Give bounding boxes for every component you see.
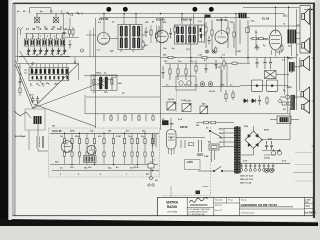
svg-text:GŁ1: GŁ1: [283, 16, 288, 18]
wire tuner left rail: [17, 28, 19, 62]
agc components: [227, 20, 249, 48]
junction dot d: [160, 13, 162, 15]
svg-text:5Ω: 5Ω: [288, 46, 291, 48]
left small marks: [24, 70, 27, 73]
svg-text:EM 80: EM 80: [180, 125, 188, 129]
IF filter slug: [199, 25, 205, 42]
svg-text:UL. MICKIEWICZA 1: UL. MICKIEWICZA 1: [189, 213, 206, 216]
ratio detector coil b: [105, 76, 108, 90]
resistor R IF3: [142, 40, 144, 50]
svg-text:nrn 58/972: nrn 58/972: [305, 213, 317, 215]
resistor R left1: [19, 88, 21, 93]
dial lamp 4: [254, 163, 257, 171]
pot ganging dashed line: [176, 90, 178, 112]
wire riser center: [160, 18, 162, 130]
manufacturer address lines: [189, 208, 211, 216]
crossover capacitor box: [265, 71, 277, 79]
stamp mark above title: [196, 191, 201, 195]
resistor R8 amp chain: [123, 133, 125, 164]
resistor pair gap: [68, 27, 74, 37]
svg-text:0,5M: 0,5M: [186, 101, 191, 103]
tube V3 EABC80: [215, 18, 228, 44]
left column wire: [19, 64, 21, 97]
dial lamp 2: [245, 163, 248, 171]
dial lamp 1: [240, 163, 243, 171]
wire tap join: [223, 129, 225, 148]
electrolytic cap 2: [277, 149, 281, 155]
coil L1: [24, 34, 28, 47]
frame tick marks: [312, 58, 316, 146]
resistor R12 amp chain: [151, 133, 153, 164]
coil L3: [36, 34, 40, 47]
potentiometer P3 treble: [200, 106, 208, 114]
triode V1a: [61, 141, 73, 153]
B plus choke: [277, 116, 291, 124]
wire second top bus: [100, 17, 250, 19]
tube V4 EL84: [269, 30, 282, 57]
soft toner smudge amp: [48, 128, 160, 177]
approval signature: [190, 197, 208, 205]
socket jack B: [208, 82, 213, 87]
soft toner smudge controls: [160, 56, 250, 112]
transistor T2 oscillator: [53, 14, 59, 23]
wire speaker box exit: [297, 9, 314, 60]
test point jack 1: [205, 50, 208, 53]
svg-text:EABC 80: EABC 80: [217, 19, 228, 22]
resistor R IF2: [155, 25, 157, 43]
hang cap 1: [205, 64, 208, 73]
wire filter bus: [240, 85, 288, 87]
resistor R det3: [215, 46, 217, 54]
svg-text:Gr: Gr: [147, 173, 150, 176]
antenna input symbol: [18, 27, 23, 35]
resistor R7 amp chain: [112, 133, 114, 164]
speaker network: [280, 97, 301, 105]
logo UNITRA RADIO: [166, 201, 179, 214]
wire screen bus: [248, 25, 300, 27]
IF transformer T10.7 D: [187, 25, 198, 44]
antenna coupling box: [25, 109, 45, 130]
potentiometer P2 bass: [182, 104, 191, 112]
diode D2: [251, 99, 257, 103]
control labels: [164, 60, 221, 102]
resistor R1 amp chain: [63, 133, 65, 164]
wire bridge output: [241, 126, 290, 155]
svg-text:127V: 127V: [219, 142, 224, 144]
capacitor C mid1: [162, 66, 165, 79]
capacitor C gap3: [69, 40, 72, 48]
tube V6 ECH81: [156, 18, 168, 44]
svg-text:1M: 1M: [60, 136, 63, 138]
bottom-right light corner: [318, 223, 320, 227]
left frame line inner: [14, 3, 17, 216]
power transformer core: [236, 126, 239, 174]
trimmer capacitor C2: [33, 47, 37, 54]
svg-text:ZR DIORA: ZR DIORA: [167, 211, 177, 214]
junction dot a: [68, 13, 70, 15]
filter capacitors: [265, 141, 273, 150]
resistor R9 amp chain: [131, 133, 133, 164]
wire speaker feed bus: [243, 7, 299, 9]
svg-text:ŻAR 7V 0,3A: ŻAR 7V 0,3A: [240, 182, 252, 185]
IF transformer T10.7 B: [131, 25, 143, 50]
right frame border: [313, 3, 315, 219]
svg-text:6,3V: 6,3V: [282, 161, 287, 163]
dial lamp 8: [272, 163, 275, 171]
bus component marker: [205, 15, 211, 18]
coil L7: [60, 34, 64, 47]
triode V1b: [87, 145, 96, 154]
paper noise: [0, 0, 1, 1]
svg-text:160V: 160V: [219, 137, 224, 139]
wire gram riser: [203, 186, 209, 188]
svg-text:Nazwa: Nazwa: [241, 200, 247, 202]
wire lamp bus: [239, 162, 290, 164]
wire tuner lower rail: [19, 55, 70, 57]
fuse holder: [209, 144, 219, 150]
IF transformer T10.7 C: [175, 25, 186, 44]
svg-text:6,3V: 6,3V: [243, 161, 248, 163]
band switch trimmer row: [29, 75, 69, 81]
wire agc riser: [235, 14, 237, 56]
filter box F1: [251, 80, 262, 91]
coil L6: [54, 34, 58, 47]
wire low horizontal: [85, 113, 291, 115]
drawing title text: [240, 203, 293, 207]
svg-text:Na podst.: Na podst.: [215, 199, 223, 202]
capacitor C top3: [269, 57, 272, 69]
amp value labels: [60, 135, 145, 170]
wire mid bus 1: [161, 57, 297, 59]
switch contact b: [74, 62, 76, 64]
wire contact drop: [75, 57, 79, 80]
svg-text:6,3V: 6,3V: [178, 119, 183, 121]
top paper edge line: [13, 3, 315, 5]
wire tuner bottom rail: [15, 56, 96, 58]
wire EM80 links: [171, 118, 205, 138]
wire control bus: [162, 86, 240, 88]
capacitor C sp1: [258, 96, 261, 106]
dial lamp 5: [258, 163, 261, 171]
coil L2: [30, 34, 34, 47]
wire gap risers: [86, 28, 96, 57]
capacitor C ant: [31, 96, 39, 104]
resistor R mid2: [202, 56, 207, 58]
ratio detector coil a: [98, 76, 105, 90]
switch linkage diagonal 1: [15, 65, 33, 109]
diode D1: [243, 99, 249, 103]
mains lead: [212, 150, 215, 162]
speaker jack 2: [291, 95, 295, 99]
detector side parts: [93, 75, 113, 90]
antenna transformer: [34, 116, 42, 124]
cathode parts EL84: [276, 44, 283, 52]
resistor R10 amp chain: [136, 133, 138, 164]
wire right riser 2: [285, 56, 288, 113]
wire b feed mid: [196, 122, 234, 124]
tuning link diagonal: [34, 77, 118, 109]
hang cap 2: [215, 60, 218, 69]
junction dot c: [103, 13, 105, 15]
mains tap 190V: [219, 133, 234, 135]
resistor chain EL84 grid: [250, 37, 268, 39]
punch hole 3: [192, 7, 197, 12]
capacitor C top1: [256, 58, 259, 68]
wire gap mid: [62, 14, 79, 38]
coupling choke: [239, 13, 247, 18]
svg-text:RADIO: RADIO: [167, 205, 178, 209]
wire to title block: [170, 186, 172, 197]
mains tap 160V: [219, 137, 234, 139]
capacitor C gap1: [63, 29, 66, 36]
title block verticals: [187, 197, 304, 215]
coil L4: [42, 34, 46, 47]
band switch labels: [30, 84, 59, 86]
wire risers ctrl: [222, 63, 227, 86]
wire antenna box down: [28, 130, 30, 150]
svg-text:2×0,01: 2×0,01: [209, 90, 216, 93]
tube V2 ECC85: [98, 14, 110, 45]
speaker box top: [300, 6, 310, 53]
component row above amp: [104, 114, 154, 121]
svg-text:1M: 1M: [230, 22, 233, 24]
title lower row: [241, 212, 254, 215]
jack small: [279, 100, 282, 103]
wire switch rail: [17, 63, 78, 65]
tuner top small labels: [40, 10, 74, 17]
dial lamp 6: [263, 163, 266, 171]
punch hole 1: [106, 7, 111, 12]
resistor R mid3: [232, 62, 237, 64]
filter box F2: [266, 80, 277, 91]
svg-text:Schemat ideowy: Schemat ideowy: [241, 212, 254, 215]
power transformer primary: [234, 127, 237, 174]
potentiometer P1 volume: [167, 102, 176, 110]
ratio detector box: [91, 75, 117, 91]
speaker connector dot: [311, 9, 313, 11]
bottom black bar: [0, 219, 318, 226]
trimmer capacitor C5: [51, 47, 55, 54]
coil L5: [48, 34, 52, 47]
mains plug prongs: [198, 140, 203, 156]
switch linkage diagonal 3: [34, 104, 96, 127]
wire top loop: [30, 8, 52, 14]
wire antenna to amp: [38, 124, 48, 151]
svg-text:220V: 220V: [219, 128, 224, 130]
antenna lead zigzag: [14, 111, 31, 118]
wire EL84 grid: [256, 30, 269, 48]
pilot bulb 1: [265, 169, 269, 173]
soft toner smudge IF: [96, 18, 248, 54]
wire b plus riser: [289, 108, 291, 140]
wire mid bus 2: [165, 62, 250, 64]
resistor R6 amp chain: [103, 133, 105, 164]
bottom frame line: [13, 214, 314, 217]
wire riser IF left: [95, 18, 97, 128]
diode EL84 area: [255, 44, 260, 51]
svg-text:ODBIORNIK FM DM 70/102: ODBIORNIK FM DM 70/102: [241, 203, 278, 207]
power transformer secondary: [238, 127, 241, 174]
wire top supply bus: [36, 13, 284, 15]
scattered value labels: [17, 10, 299, 182]
svg-text:1M: 1M: [164, 61, 167, 63]
pickup component: [148, 164, 154, 180]
switch bank leads: [32, 64, 67, 68]
switch linkage diagonal 2: [33, 64, 79, 109]
wire EL84 anode: [276, 7, 289, 30]
wire IF link: [109, 14, 145, 39]
loudspeaker LS2: [302, 38, 310, 53]
mains tap 110V: [219, 146, 234, 148]
resistor R2 amp chain: [71, 133, 73, 164]
svg-text:Nr rys.: Nr rys.: [228, 200, 234, 202]
tube V5 EM80: [167, 130, 177, 156]
DW marker box: [162, 120, 174, 125]
wire riser detector: [190, 20, 192, 87]
capacitor C gap2: [63, 40, 66, 48]
resistor R3 amp chain: [78, 133, 80, 164]
svg-text:19SZ: 19SZ: [96, 73, 102, 75]
dial lamp 7: [267, 163, 270, 171]
wire B choke: [270, 119, 299, 121]
number cells: [305, 199, 317, 214]
ferrite rod coil: [37, 136, 44, 148]
title block horizontals: [187, 203, 313, 209]
title cell divider: [226, 197, 228, 203]
speaker transformer 2: [291, 95, 296, 110]
resistor R4 amp chain: [86, 133, 88, 164]
detector diode parts: [205, 20, 213, 50]
oscillator coil amp: [152, 134, 156, 147]
dial lamp 3: [249, 163, 252, 171]
mains entry box: [185, 160, 201, 170]
svg-text:190V: 190V: [219, 133, 224, 135]
wire choke link: [276, 67, 301, 75]
title cell small labels: [215, 199, 247, 213]
svg-text:2,2M: 2,2M: [116, 136, 121, 138]
svg-text:ŻAR 6,3V 0,3A: ŻAR 6,3V 0,3A: [240, 175, 253, 178]
soft toner smudge tuner: [15, 10, 70, 56]
title block frame: [158, 197, 314, 215]
switch contact a: [32, 63, 34, 65]
left frame line outer: [12, 3, 15, 216]
svg-text:0,8A: 0,8A: [204, 155, 209, 158]
socket jack A: [200, 82, 205, 87]
punch hole 4: [209, 7, 214, 12]
switch linkage diagonal 4: [16, 61, 34, 104]
wire coil bus: [25, 33, 67, 35]
loudspeaker LS4: [301, 87, 310, 102]
trimmer capacitor C3: [39, 47, 43, 54]
resistor R sp1: [266, 96, 268, 105]
mains tap selector arm: [209, 130, 222, 137]
punch hole 2: [123, 7, 128, 12]
capacitor C left1: [19, 78, 22, 86]
capacitor C IF1: [145, 27, 148, 37]
svg-text:0,5M: 0,5M: [236, 51, 241, 53]
loudspeaker LS3: [301, 56, 310, 71]
speaker choke: [289, 62, 295, 72]
svg-text:Zatw. KT: Zatw. KT: [215, 209, 223, 212]
resistor R5 amp chain: [93, 133, 95, 164]
wire detector lower bus: [86, 96, 160, 98]
loudspeaker LS5: [302, 101, 310, 114]
EM80 grid parts: [181, 140, 194, 148]
wire rectifier links: [262, 151, 281, 156]
IF transformer T10.7 A: [118, 25, 130, 50]
svg-text:2×50μ: 2×50μ: [264, 157, 271, 160]
power switch: [198, 166, 235, 171]
svg-text:EL 84: EL 84: [262, 17, 270, 21]
svg-text:ECC 85: ECC 85: [53, 129, 63, 133]
svg-text:1M: 1M: [108, 131, 111, 133]
wire amp bottom bus: [50, 164, 158, 166]
wire riser agc: [247, 20, 249, 63]
hang res 1: [223, 58, 225, 70]
svg-text:DW: DW: [170, 123, 174, 125]
resistor R feed1: [204, 121, 209, 123]
svg-text:GŁ2: GŁ2: [288, 58, 293, 60]
bridge rectifier: [245, 131, 262, 148]
wire detector bus: [84, 75, 160, 77]
left binding black bar: [0, 0, 8, 221]
mains tap 220V: [219, 128, 234, 130]
resistor R mid1: [166, 56, 176, 58]
capacitor C det1: [169, 28, 172, 39]
band switch coil bank: [29, 68, 69, 75]
svg-text:110V: 110V: [219, 146, 224, 148]
resistor R feed2: [211, 121, 216, 123]
trimmer capacitor C7: [63, 47, 67, 54]
pickup jack pair: [148, 184, 154, 186]
pilot bulb 2: [270, 169, 274, 173]
svg-text:GŁOŚ.: GŁOŚ.: [168, 98, 175, 101]
loudspeaker LS1: [302, 9, 310, 25]
audio amplifier enclosure: [49, 128, 160, 177]
resistor R11 amp chain: [144, 133, 146, 164]
wire IF2 links: [182, 14, 205, 35]
trimmer capacitor C6: [57, 47, 61, 54]
speaker jack 1: [286, 95, 290, 99]
junction dot b: [78, 13, 80, 15]
revision table lines: [293, 153, 313, 182]
wire mid horizontal: [96, 56, 160, 58]
driver transformer: [84, 156, 97, 163]
resistor R IF1: [150, 25, 152, 43]
resistor R det1: [174, 25, 176, 35]
chassis dashed boundary: [162, 127, 211, 196]
tuner value labels row: [26, 28, 68, 31]
svg-text:46CH38μF: 46CH38μF: [15, 135, 26, 138]
trimmer capacitor C4: [45, 47, 49, 54]
wire amp top bus: [50, 132, 159, 134]
transistor T1 mixer: [34, 14, 40, 23]
svg-text:5Ω: 5Ω: [283, 109, 286, 111]
output transformer: [288, 30, 297, 44]
test point jack 2: [212, 50, 215, 53]
binding shadow strip: [8, 0, 11, 220]
wire amp ground bus: [52, 170, 159, 172]
tone caps: [221, 64, 234, 102]
detector labels: [163, 17, 241, 53]
lamp labels: [240, 175, 253, 185]
resistor network mid: [169, 60, 197, 80]
svg-text:ŻAR 6,3V 0,1A: ŻAR 6,3V 0,1A: [240, 178, 253, 181]
mains tap 127V: [219, 142, 234, 144]
shield box detector: [176, 76, 196, 90]
svg-text:4212-72: 4212-72: [215, 205, 222, 207]
capacitor C det2: [208, 36, 211, 44]
